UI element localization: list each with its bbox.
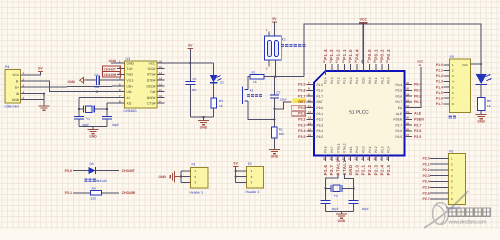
svg-text:XTAL1: XTAL1: [342, 160, 347, 176]
svg-text:12: 12: [159, 82, 163, 86]
svg-text:USB-mini: USB-mini: [5, 104, 20, 108]
svg-text:C3: C3: [277, 90, 281, 94]
svg-text:P2.7: P2.7: [422, 197, 429, 201]
svg-text:PSEN: PSEN: [393, 118, 402, 122]
svg-text:R3: R3: [219, 99, 223, 103]
wire EA to VCC: [412, 67, 421, 108]
svg-text:GND: GND: [127, 61, 135, 65]
svg-text:P4: P4: [5, 65, 9, 69]
svg-text:P2.4: P2.4: [422, 180, 429, 184]
svg-text:P0.2: P0.2: [380, 49, 385, 60]
svg-text:P1.4: P1.4: [323, 49, 328, 60]
svg-text:P0.7: P0.7: [414, 100, 421, 104]
svg-text:P1.2: P1.2: [336, 49, 341, 60]
junction Y2 left: [325, 187, 327, 189]
svg-text:16: 16: [159, 59, 163, 63]
header P3 body: [450, 59, 471, 112]
wire VCC row: [165, 62, 214, 64]
svg-text:XO: XO: [127, 102, 132, 106]
svg-text:CH340T: CH340T: [104, 67, 116, 71]
svg-text:P2.5: P2.5: [395, 135, 402, 139]
svg-text:10: 10: [308, 99, 311, 102]
gnd rail of Y2: [325, 203, 327, 211]
svg-text:P1.3: P1.3: [330, 77, 334, 84]
button K1: [244, 89, 248, 91]
watermark elecfans logo: [424, 191, 468, 228]
capacitor C7 30pF: [349, 200, 359, 202]
svg-text:TxD: TxD: [127, 67, 134, 71]
LED D4: [480, 62, 482, 73]
svg-text:P3.2: P3.2: [298, 118, 305, 122]
svg-text:P2: P2: [248, 162, 252, 166]
svg-text:P2.7: P2.7: [395, 123, 402, 127]
svg-text:P0.5: P0.5: [414, 89, 421, 93]
svg-text:33: 33: [406, 99, 409, 102]
ground below Y2: [336, 213, 347, 215]
svg-text:P2.6: P2.6: [422, 191, 429, 195]
svg-text:GND: GND: [158, 175, 166, 179]
capacitor C6 30pF: [321, 200, 331, 202]
wire reset node: [264, 76, 304, 78]
svg-text:35: 35: [406, 88, 409, 91]
svg-text:P4.4: P4.4: [355, 77, 359, 84]
capacitor C left 30pF: [74, 115, 84, 117]
IC 51 PLCC body: [314, 71, 405, 156]
svg-text:D3: D3: [90, 162, 94, 166]
svg-text:P2.3: P2.3: [373, 164, 378, 175]
junction crystal right: [106, 108, 108, 110]
svg-text:P2.3: P2.3: [380, 146, 384, 153]
svg-text:CH340T: CH340T: [122, 169, 136, 173]
svg-text:C5: C5: [193, 77, 197, 81]
svg-text:C1: C1: [95, 73, 99, 77]
wire gnd-arrow to C1: [86, 79, 96, 81]
svg-text:D-: D-: [16, 79, 19, 83]
label zisuo switch: [281, 44, 284, 47]
svg-text:Header 3: Header 3: [246, 190, 260, 194]
svg-text:30: 30: [406, 117, 409, 120]
svg-text:10uF: 10uF: [280, 98, 287, 102]
ground under USB: [39, 105, 50, 107]
port CH340R: [103, 72, 121, 77]
svg-text:R1: R1: [252, 70, 256, 74]
svg-text:P1.1: P1.1: [342, 49, 347, 60]
wire P3.0 to CH340T: [73, 170, 119, 172]
label diode IN4148: [85, 179, 88, 182]
svg-text:P1.0: P1.0: [349, 77, 353, 84]
wire XI: [79, 97, 117, 99]
svg-text:P2.4: P2.4: [380, 164, 385, 175]
crystal Y1: [79, 108, 83, 110]
wire USB ID: [27, 93, 44, 95]
svg-text:5V: 5V: [188, 44, 193, 48]
svg-text:VCC: VCC: [360, 17, 368, 21]
diode D3: [88, 167, 95, 174]
svg-text:P2.2: P2.2: [374, 146, 378, 153]
wire XTAL1 drop: [344, 175, 353, 201]
ground arrow glyph: [83, 79, 86, 81]
svg-text:RxD: RxD: [127, 73, 134, 77]
svg-text:5V: 5V: [233, 162, 238, 166]
svg-text:P0.0: P0.0: [367, 49, 372, 60]
wire P3.1 to CH340R: [73, 192, 119, 194]
svg-text:P1.6: P1.6: [298, 89, 305, 93]
port CH340T: [103, 66, 121, 71]
ground sideways glyph: [175, 176, 181, 178]
svg-text:P5: P5: [449, 149, 453, 153]
svg-text:34: 34: [406, 94, 409, 97]
svg-text:XTAL2: XTAL2: [343, 143, 347, 153]
power 5V above K2: [272, 21, 277, 23]
svg-text:GND: GND: [89, 135, 97, 139]
svg-text:P3.6: P3.6: [324, 146, 328, 153]
ground of right LED: [476, 114, 487, 116]
svg-text:DTR#: DTR#: [147, 79, 156, 83]
svg-text:P1.7: P1.7: [317, 94, 324, 98]
svg-text:VDD: VDD: [362, 77, 366, 84]
svg-text:P2.1: P2.1: [361, 164, 366, 175]
svg-text:P2.0: P2.0: [362, 146, 366, 153]
ground of reset: [269, 149, 280, 151]
svg-text:PSEN: PSEN: [414, 118, 424, 122]
power 5V at USB: [27, 72, 41, 75]
svg-text:P2.1: P2.1: [422, 162, 429, 166]
svg-text:12: 12: [308, 111, 311, 114]
svg-text:P3.7: P3.7: [329, 164, 334, 175]
svg-text:IN4148: IN4148: [96, 179, 107, 183]
svg-text:16: 16: [308, 134, 311, 137]
svg-text:RST: RST: [298, 100, 306, 104]
svg-text:VCC: VCC: [12, 73, 20, 77]
ground below crystal: [88, 129, 99, 131]
svg-text:P3.0: P3.0: [298, 106, 305, 110]
svg-text:P1.0: P1.0: [436, 63, 443, 67]
wire USB D- to UD-: [27, 81, 117, 92]
svg-text:GND: GND: [477, 120, 485, 124]
svg-text:P2.5: P2.5: [414, 135, 421, 139]
wire USB D+ to UD+: [27, 86, 117, 87]
wire XTAL2 drop: [326, 175, 339, 201]
svg-text:RTS#: RTS#: [147, 73, 156, 77]
svg-text:5V: 5V: [272, 17, 277, 21]
svg-text:VCC: VCC: [462, 63, 468, 67]
svg-text:VCC: VCC: [149, 61, 157, 65]
highlight RST: [293, 99, 307, 104]
svg-text:P1.0: P1.0: [348, 49, 353, 60]
wire XO: [107, 102, 117, 104]
svg-text:CH340G: CH340G: [124, 109, 138, 113]
svg-text:P0.3: P0.3: [387, 77, 391, 84]
svg-text:P2.5: P2.5: [386, 164, 391, 175]
svg-text:P3.1: P3.1: [65, 191, 72, 195]
header P2 body: [247, 167, 264, 188]
svg-text:10: 10: [159, 94, 163, 98]
junction on D- wire: [96, 91, 98, 93]
svg-text:P2.3: P2.3: [422, 174, 429, 178]
ground of LED circuit: [198, 120, 209, 122]
svg-text:36: 36: [406, 82, 409, 85]
svg-text:5V: 5V: [38, 67, 43, 71]
svg-text:P2.2: P2.2: [367, 164, 372, 175]
power VCC: [362, 23, 364, 24]
svg-text:13: 13: [308, 117, 311, 120]
svg-text:RI#: RI#: [150, 90, 155, 94]
svg-text:P1.7: P1.7: [298, 94, 305, 98]
svg-text:P3.5: P3.5: [298, 135, 305, 139]
junction crystal left: [78, 108, 80, 110]
svg-text:www.elecfans.com: www.elecfans.com: [448, 220, 488, 226]
svg-text:P1.3: P1.3: [436, 80, 443, 84]
resistor R2: [272, 127, 278, 138]
svg-text:14: 14: [308, 123, 311, 126]
svg-text:51 PLCC: 51 PLCC: [349, 110, 369, 116]
svg-text:30pF: 30pF: [332, 207, 339, 211]
svg-text:K2: K2: [282, 38, 286, 42]
bottom rail to GND: [190, 116, 213, 118]
power 5V above C5: [189, 49, 191, 64]
wire VDD column: [362, 24, 364, 64]
svg-text:XTAL1: XTAL1: [336, 143, 340, 153]
svg-text:P1.7: P1.7: [436, 102, 443, 106]
LED D2: [213, 63, 215, 75]
svg-text:GND: GND: [338, 219, 346, 223]
wire C1 to V3.3 pin: [99, 79, 117, 81]
svg-text:P3.0: P3.0: [65, 169, 72, 173]
svg-text:28: 28: [406, 128, 409, 131]
svg-text:330: 330: [91, 197, 96, 201]
svg-text:P1.6: P1.6: [436, 96, 443, 100]
svg-text:P0.4: P0.4: [414, 83, 421, 87]
connector P4 USB-mini body: [5, 70, 21, 104]
svg-text:P1.6: P1.6: [317, 89, 324, 93]
svg-text:104: 104: [192, 88, 197, 92]
crystal Y2: [326, 187, 331, 189]
svg-text:10K: 10K: [279, 132, 285, 136]
capacitor C3: [273, 77, 275, 95]
svg-text:P3.1: P3.1: [298, 112, 305, 116]
svg-text:GND: GND: [348, 164, 353, 175]
svg-text:P3.1: P3.1: [317, 112, 324, 116]
header P1 body: [190, 168, 208, 189]
svg-text:CTS#: CTS#: [147, 102, 156, 106]
svg-text:P1.5: P1.5: [436, 91, 443, 95]
svg-text:ALE: ALE: [414, 112, 422, 116]
wire K1 return: [248, 101, 275, 120]
junction K1 return: [273, 118, 275, 120]
svg-text:P1.1: P1.1: [436, 69, 443, 73]
svg-text:D+: D+: [15, 86, 19, 90]
wire R1 to K1: [248, 77, 250, 90]
svg-text:P1: P1: [192, 163, 196, 167]
svg-text:30pF: 30pF: [362, 207, 369, 211]
svg-text:27: 27: [406, 134, 409, 137]
svg-text:CH340R: CH340R: [122, 191, 136, 195]
svg-text:GND: GND: [67, 80, 75, 84]
svg-text:P2.6: P2.6: [395, 129, 402, 133]
svg-text:ALE: ALE: [396, 112, 402, 116]
svg-text:V3.3: V3.3: [127, 79, 134, 83]
wire USB GND: [27, 99, 44, 101]
svg-text:GND: GND: [271, 155, 279, 159]
IC U3 CH340G body: [125, 61, 158, 108]
svg-text:DSR#: DSR#: [147, 96, 156, 100]
svg-text:Y1: Y1: [86, 117, 90, 121]
capacitor C right 30pF: [106, 103, 108, 116]
left crystal rail: [78, 98, 80, 117]
svg-text:P3: P3: [450, 55, 454, 59]
junction reset to RST: [273, 108, 275, 110]
svg-text:R6: R6: [487, 99, 491, 103]
svg-text:P0.0: P0.0: [368, 77, 372, 84]
svg-text:P2.0: P2.0: [354, 164, 359, 175]
svg-text:VSS: VSS: [349, 147, 353, 153]
svg-text:P3.7: P3.7: [330, 146, 334, 153]
svg-text:P0.6: P0.6: [414, 94, 421, 98]
svg-text:P3.0: P3.0: [317, 106, 324, 110]
svg-text:Header 3: Header 3: [190, 190, 204, 194]
gnd rail of crystal: [78, 119, 80, 127]
svg-text:P1.4: P1.4: [436, 85, 443, 89]
svg-text:P1.5: P1.5: [317, 83, 324, 87]
svg-text:32: 32: [406, 105, 409, 108]
svg-text:P0.4: P0.4: [395, 83, 402, 87]
svg-text:P3.3: P3.3: [298, 123, 305, 127]
svg-text:P3.6: P3.6: [323, 164, 328, 175]
svg-text:31: 31: [406, 111, 409, 114]
svg-text:P2.2: P2.2: [422, 168, 429, 172]
svg-text:UD+: UD+: [127, 84, 134, 88]
svg-text:P0.5: P0.5: [395, 89, 402, 93]
svg-text:XI: XI: [127, 96, 130, 100]
svg-text:P2.5: P2.5: [422, 186, 429, 190]
svg-text:P2.0: P2.0: [422, 157, 429, 161]
svg-text:P2.4: P2.4: [387, 146, 391, 153]
svg-text:P1.2: P1.2: [336, 77, 340, 84]
svg-text:CH340R: CH340R: [104, 73, 117, 77]
svg-text:P0.7: P0.7: [395, 100, 402, 104]
resistor R6: [480, 84, 482, 97]
capacitor C5: [189, 63, 191, 81]
junction Y2 right: [353, 187, 355, 189]
svg-text:P1.5: P1.5: [298, 83, 305, 87]
resistor R4: [91, 191, 102, 195]
svg-text:P2.1: P2.1: [368, 146, 372, 153]
VCC top rail: [304, 24, 481, 77]
svg-text:XTAL2: XTAL2: [336, 160, 341, 176]
svg-text:11: 11: [159, 88, 162, 92]
wire to RST label: [274, 102, 291, 109]
svg-text:P1.3: P1.3: [329, 49, 334, 60]
svg-text:P3.4: P3.4: [298, 129, 305, 133]
svg-text:R4: R4: [92, 186, 96, 190]
svg-text:P1.4: P1.4: [324, 77, 328, 84]
header P5 body: [449, 154, 466, 205]
svg-text:P2.6: P2.6: [414, 129, 421, 133]
svg-text:K1: K1: [250, 89, 254, 93]
svg-text:P0.1: P0.1: [373, 49, 378, 60]
svg-text:GND: GND: [12, 98, 20, 102]
svg-text:14: 14: [159, 71, 163, 75]
svg-text:13: 13: [159, 77, 163, 81]
svg-text:P1.1: P1.1: [343, 77, 347, 84]
svg-text:DCD#: DCD#: [147, 84, 156, 88]
svg-text:P3.2: P3.2: [317, 118, 324, 122]
svg-text:104: 104: [94, 85, 100, 89]
svg-text:D2: D2: [220, 81, 224, 85]
switch K2: [265, 36, 282, 60]
svg-text:RST: RST: [317, 100, 323, 104]
svg-text:Y2: Y2: [334, 194, 338, 198]
svg-text:P4.0: P4.0: [355, 146, 359, 153]
resistor R3: [213, 83, 215, 98]
svg-text:P3.5: P3.5: [317, 135, 324, 139]
svg-text:R2: R2: [279, 128, 283, 132]
svg-text:R232: R232: [148, 67, 156, 71]
power 5V for P2: [233, 166, 238, 168]
capacitor C1: [96, 76, 98, 85]
svg-text:P0.1: P0.1: [374, 77, 378, 84]
svg-text:15: 15: [159, 65, 163, 69]
svg-text:30pF: 30pF: [112, 123, 119, 127]
svg-text:UD-: UD-: [127, 90, 133, 94]
svg-text:15: 15: [308, 128, 311, 131]
junction VCC rail: [189, 62, 191, 64]
junction VDD rail: [362, 23, 364, 25]
svg-text:29: 29: [406, 123, 409, 126]
svg-text:P0.2: P0.2: [380, 77, 384, 84]
svg-text:P0.6: P0.6: [395, 94, 402, 98]
svg-text:P3.4: P3.4: [317, 129, 324, 133]
svg-text:P1.2: P1.2: [436, 74, 443, 78]
svg-text:GND: GND: [200, 126, 208, 130]
svg-text:P3.3: P3.3: [317, 123, 324, 127]
svg-text:P2.7: P2.7: [414, 123, 421, 127]
svg-text:P0.3: P0.3: [386, 49, 391, 60]
svg-text:VCC: VCC: [417, 59, 424, 63]
svg-text:P4.4: P4.4: [354, 49, 359, 60]
